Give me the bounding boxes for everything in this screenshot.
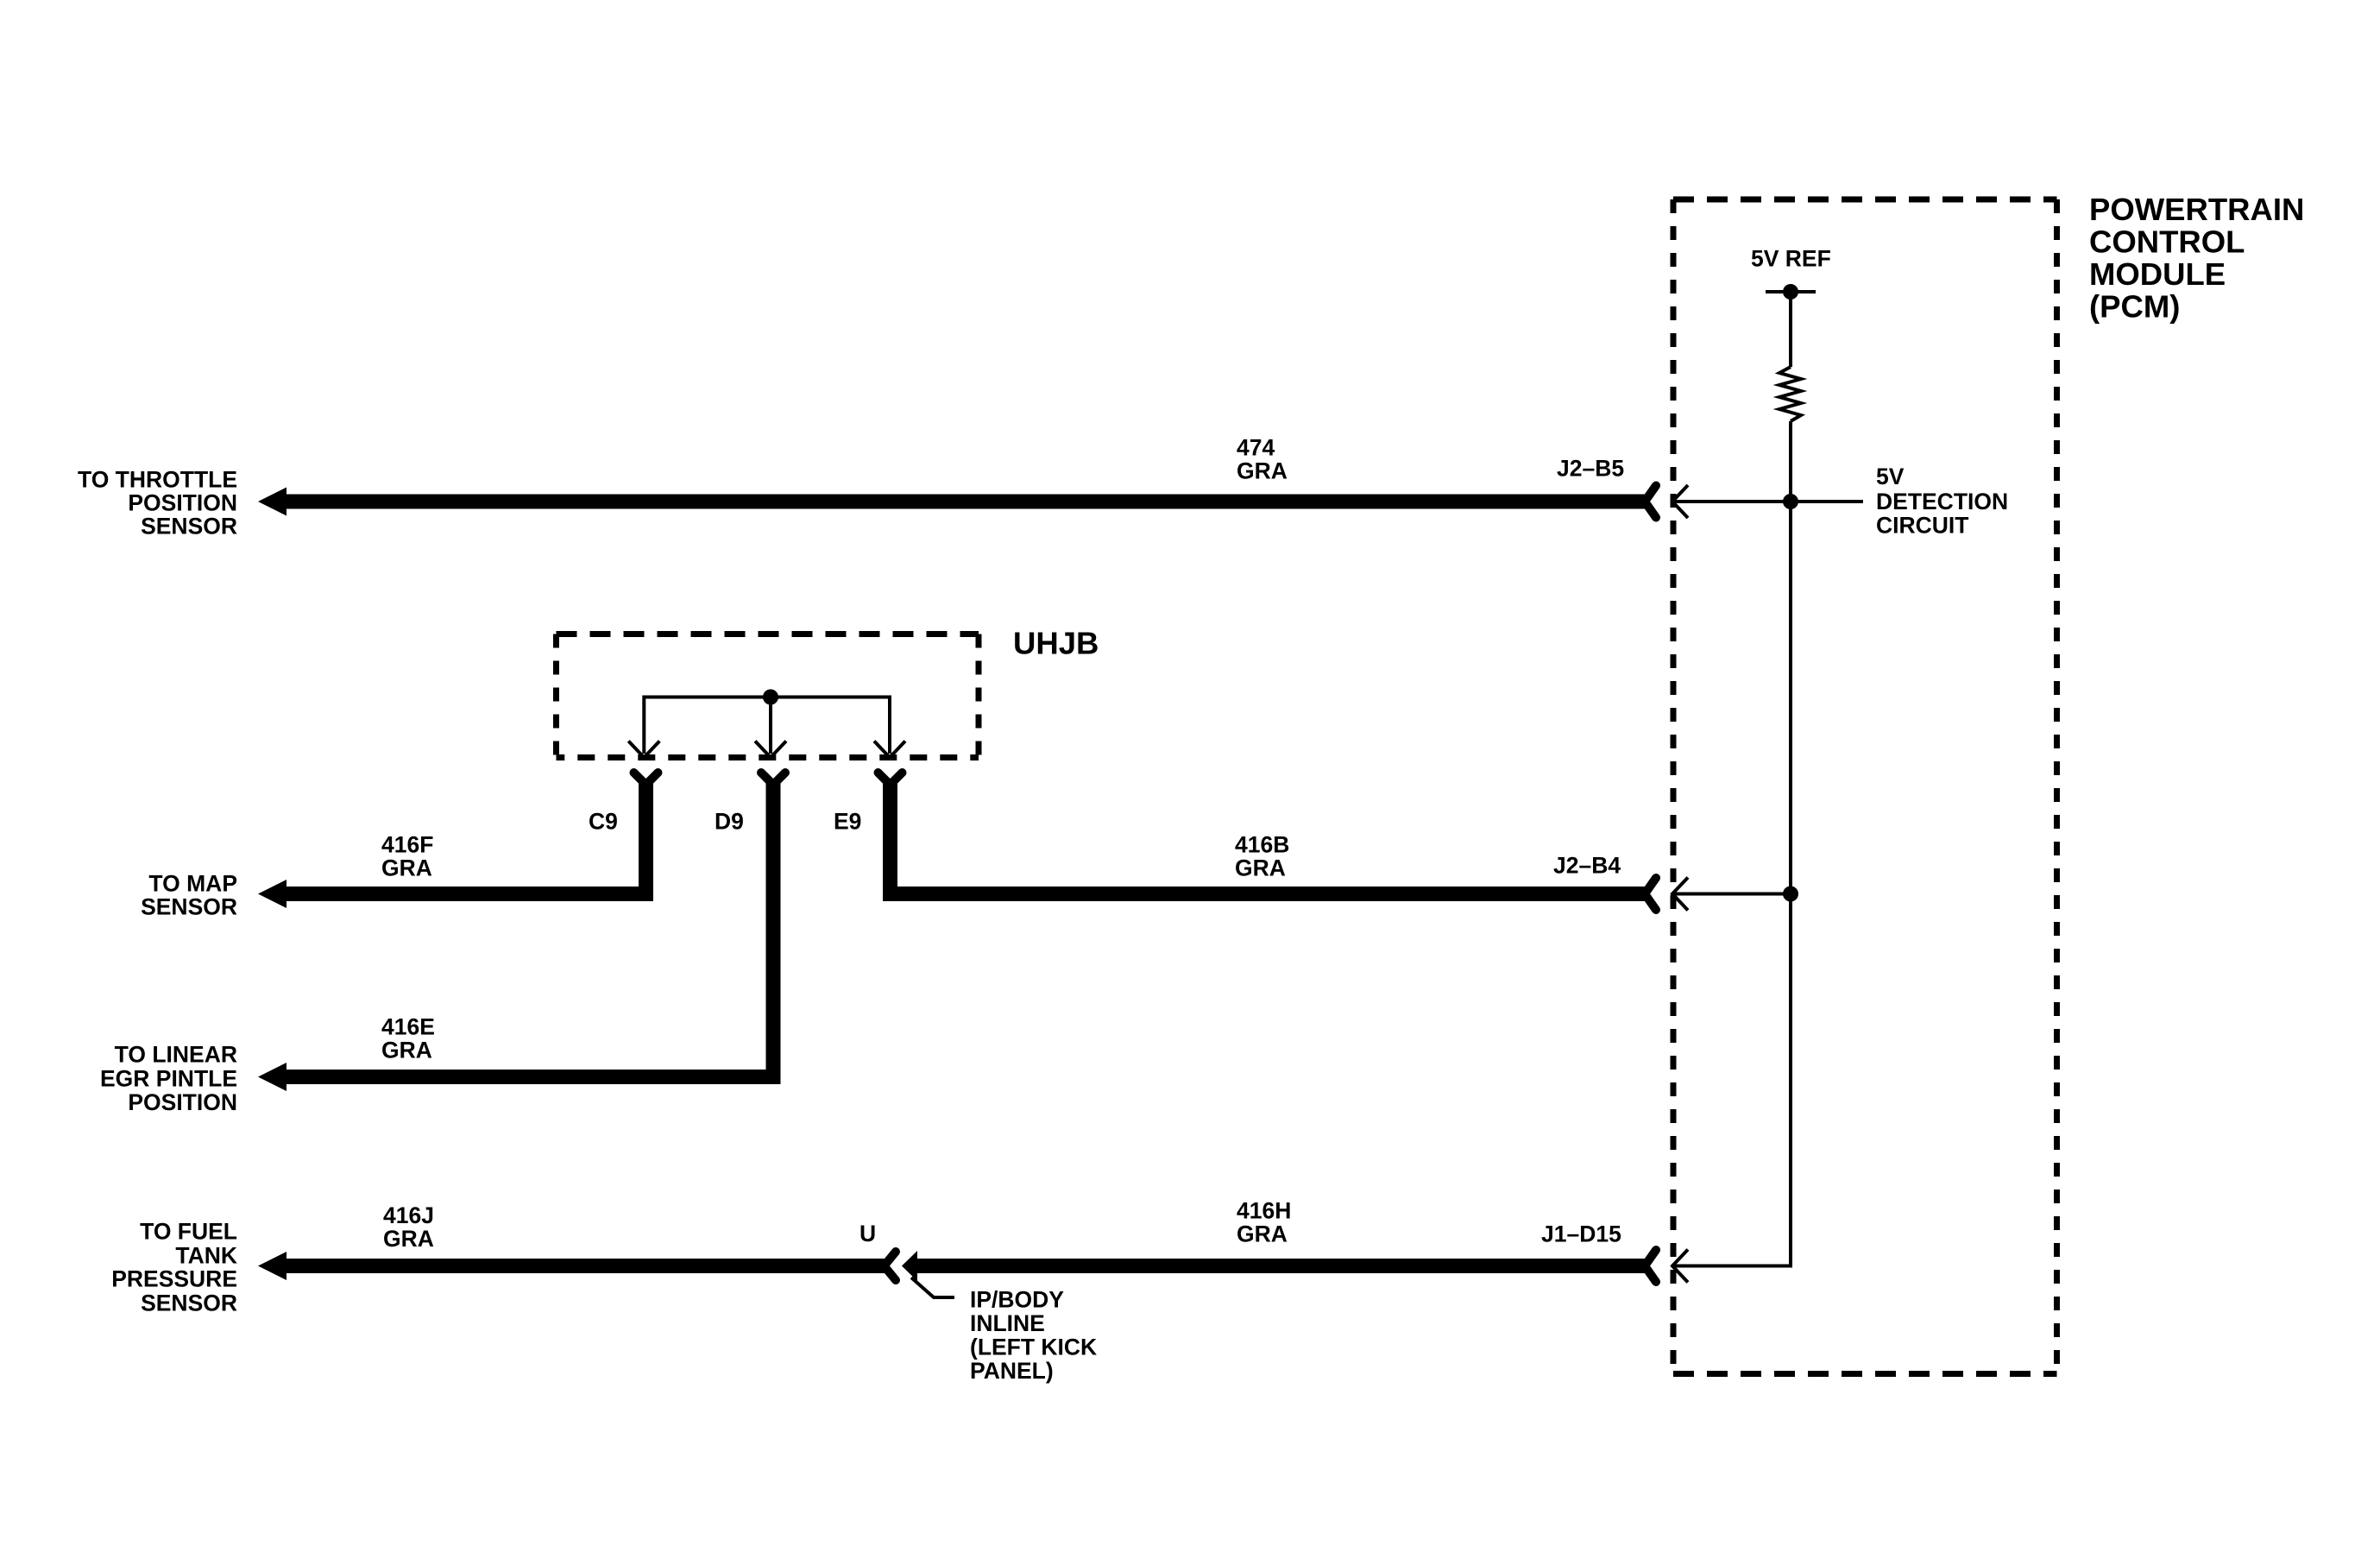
svg-text:J1–D15: J1–D15 [1541, 1221, 1621, 1247]
svg-text:U: U [859, 1221, 876, 1246]
svg-text:TO MAP: TO MAP [148, 871, 237, 897]
svg-text:UHJB: UHJB [1013, 626, 1099, 661]
svg-text:416B: 416B [1235, 832, 1289, 858]
svg-text:D9: D9 [715, 809, 744, 835]
svg-text:416H: 416H [1237, 1198, 1291, 1224]
svg-text:POSITION: POSITION [128, 490, 237, 516]
svg-text:POSITION: POSITION [128, 1089, 237, 1115]
svg-text:SENSOR: SENSOR [141, 1290, 237, 1316]
svg-text:J2–B4: J2–B4 [1553, 853, 1621, 879]
svg-text:5V: 5V [1876, 464, 1905, 489]
svg-text:DETECTION: DETECTION [1876, 489, 2008, 514]
svg-text:TO LINEAR: TO LINEAR [115, 1042, 237, 1068]
svg-text:POWERTRAIN: POWERTRAIN [2089, 192, 2304, 227]
svg-text:TO FUEL: TO FUEL [140, 1219, 237, 1245]
svg-text:INLINE: INLINE [970, 1310, 1045, 1336]
svg-text:J2–B5: J2–B5 [1557, 456, 1624, 482]
svg-text:CIRCUIT: CIRCUIT [1876, 513, 1968, 539]
svg-text:GRA: GRA [383, 1226, 434, 1252]
svg-text:5V REF: 5V REF [1751, 246, 1831, 272]
svg-text:GRA: GRA [1235, 855, 1286, 881]
svg-text:MODULE: MODULE [2089, 256, 2226, 292]
svg-text:416E: 416E [381, 1014, 435, 1040]
svg-text:(LEFT KICK: (LEFT KICK [970, 1335, 1097, 1360]
svg-text:IP/BODY: IP/BODY [970, 1287, 1064, 1313]
svg-text:PANEL): PANEL) [970, 1358, 1054, 1384]
svg-text:TO THROTTLE: TO THROTTLE [78, 467, 237, 493]
svg-text:GRA: GRA [1237, 458, 1288, 484]
svg-text:474: 474 [1237, 435, 1275, 461]
svg-text:TANK: TANK [175, 1243, 237, 1269]
svg-text:E9: E9 [834, 809, 861, 835]
svg-text:CONTROL: CONTROL [2089, 224, 2245, 260]
svg-text:SENSOR: SENSOR [141, 514, 237, 540]
svg-text:SENSOR: SENSOR [141, 894, 237, 920]
svg-text:416J: 416J [383, 1202, 434, 1228]
svg-text:416F: 416F [381, 832, 433, 858]
svg-text:GRA: GRA [381, 855, 432, 881]
svg-text:GRA: GRA [1237, 1221, 1288, 1247]
svg-text:GRA: GRA [381, 1038, 432, 1063]
svg-text:C9: C9 [589, 809, 618, 835]
svg-text:(PCM): (PCM) [2089, 289, 2180, 325]
svg-text:EGR PINTLE: EGR PINTLE [100, 1066, 237, 1092]
svg-text:PRESSURE: PRESSURE [111, 1266, 237, 1292]
